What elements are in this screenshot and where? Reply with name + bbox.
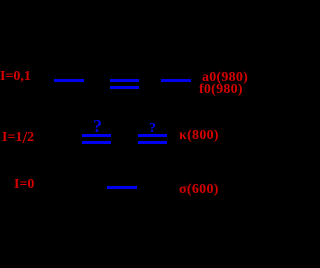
question mark left	[93, 117, 102, 135]
label I=1/2	[2, 131, 34, 145]
level a0/f0 left line	[54, 79, 84, 82]
label kappa(800)	[179, 129, 219, 143]
question mark right	[149, 122, 156, 136]
label sigma(600)	[179, 183, 219, 197]
label I=0	[14, 178, 34, 192]
level kappa left double line upper	[82, 134, 111, 137]
level a0/f0 right line	[161, 79, 191, 82]
level kappa left double line lower	[82, 141, 111, 144]
level a0/f0 middle double line lower	[110, 86, 139, 89]
level a0/f0 middle double line upper	[110, 79, 139, 82]
level kappa right double line lower	[138, 141, 167, 144]
level kappa right double line upper	[138, 134, 167, 137]
label a0(980)	[202, 71, 248, 85]
level sigma line	[107, 186, 137, 189]
label I=0,1	[0, 70, 31, 84]
label f0(980)	[199, 83, 243, 97]
